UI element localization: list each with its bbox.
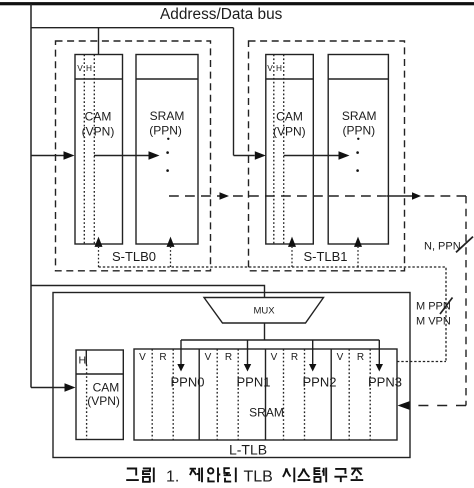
up arrow into SRAM1 bottom <box>357 247 359 267</box>
L-TLB outer box <box>53 293 410 458</box>
dotted M feed from L-TLB SRAM <box>397 361 446 363</box>
svg-text:PPN3: PPN3 <box>368 375 402 390</box>
hangul AN <box>208 468 220 483</box>
dotted M feed path <box>99 267 447 362</box>
svg-text:V: V <box>337 352 344 363</box>
arrow V2 to CAM1 <box>234 155 255 157</box>
svg-text:R: R <box>225 352 232 363</box>
arrow CAM0 to SRAM0 <box>94 155 149 157</box>
svg-text:(PPN): (PPN) <box>342 124 375 138</box>
S-TLB0 dashed block <box>56 41 211 271</box>
up arrow into CAM1 bottom <box>291 247 293 267</box>
up arrow into SRAM0 bottom <box>170 247 172 267</box>
L-TLB SRAM box <box>134 349 397 440</box>
svg-text:S-TLB0: S-TLB0 <box>112 249 156 264</box>
wire V2 drop toward S-TLB1 <box>233 28 235 156</box>
slash on N,PPN line <box>456 237 473 253</box>
arrow bus to L-TLB CAM <box>31 387 65 389</box>
svg-text:H: H <box>79 355 87 367</box>
hangul GEU <box>126 469 139 481</box>
drop arrow to PPN3 <box>378 340 380 364</box>
MUX trapezoid <box>204 298 324 324</box>
svg-text:SRAM: SRAM <box>342 109 377 123</box>
drop arrow to PPN2 <box>312 340 314 364</box>
SRAM box S-TLB1 <box>328 55 388 245</box>
Address/Data bus thick line <box>0 2 474 5</box>
CAM box S-TLB1 <box>266 55 314 245</box>
svg-text:TLB: TLB <box>244 469 273 486</box>
svg-text:H: H <box>86 63 92 73</box>
mid arrowhead 1 on dashed path <box>220 192 230 200</box>
distribution wire <box>181 339 379 341</box>
svg-text:R: R <box>159 352 166 363</box>
svg-text:H: H <box>276 63 282 73</box>
SRAM header separator <box>136 78 198 80</box>
hangul SEU <box>298 469 311 481</box>
svg-text:(VPN): (VPN) <box>273 124 306 138</box>
up arrow into CAM0 bottom <box>98 247 100 267</box>
wire H2 bus to MUX <box>31 286 265 298</box>
hangul RIM <box>143 468 154 483</box>
svg-text:CAM: CAM <box>85 109 112 123</box>
svg-text:PPN0: PPN0 <box>171 375 205 390</box>
svg-text:V: V <box>271 352 278 363</box>
L-TLB CAM box <box>76 350 123 440</box>
dotted V/R columns <box>152 349 370 440</box>
svg-text:(PPN): (PPN) <box>149 124 182 138</box>
mid arrowhead 2 on dashed path <box>412 192 421 200</box>
svg-text:(VPN): (VPN) <box>87 394 120 408</box>
dots SRAM1 <box>357 138 359 140</box>
svg-text:PPN1: PPN1 <box>237 375 271 390</box>
wire H1 horizontal feed under bus <box>31 27 234 29</box>
svg-text:CAM: CAM <box>276 109 303 123</box>
hangul JE <box>190 468 202 483</box>
dashed N,PPN output path <box>169 195 387 197</box>
wire drop into S-TLB0 VH <box>98 28 100 55</box>
wire V1 vertical from bus down left side <box>30 4 32 388</box>
svg-text:R: R <box>357 352 364 363</box>
CAM header separator <box>75 78 123 80</box>
svg-text:CAM: CAM <box>93 381 120 395</box>
way separators <box>199 349 331 440</box>
arrowhead into L-TLB right <box>398 401 411 410</box>
slash on M line <box>440 298 453 315</box>
H cell divider <box>85 350 87 365</box>
svg-text:MUX: MUX <box>253 306 275 317</box>
svg-text:V: V <box>139 352 146 363</box>
svg-text:V: V <box>77 63 83 73</box>
svg-text:V: V <box>205 352 212 363</box>
arrow CAM1 to SRAM1 <box>284 155 339 157</box>
drop arrow to PPN0 <box>180 340 182 364</box>
L-TLB CAM header separator <box>76 373 123 375</box>
dots SRAM0 <box>167 138 169 140</box>
hangul GU <box>334 469 347 482</box>
svg-text:M PPN: M PPN <box>416 301 451 313</box>
CAM1 header separator <box>266 78 314 80</box>
svg-text:L-TLB: L-TLB <box>229 442 267 458</box>
CAM box S-TLB0 <box>75 55 123 245</box>
CAM1 dotted columns <box>274 55 284 245</box>
svg-text:(VPN): (VPN) <box>82 124 115 138</box>
MUX output wire <box>264 323 266 340</box>
svg-text:N, PPN: N, PPN <box>424 241 461 253</box>
svg-text:Address/Data bus: Address/Data bus <box>160 6 283 23</box>
svg-text:V: V <box>267 63 273 73</box>
SRAM1 header separator <box>328 78 388 80</box>
drop arrow to PPN1 <box>247 340 249 364</box>
svg-text:S-TLB1: S-TLB1 <box>303 249 347 264</box>
svg-text:SRAM: SRAM <box>249 406 284 420</box>
hangul TEM <box>314 468 326 483</box>
hangul SI <box>283 468 294 483</box>
caption <box>126 468 363 486</box>
svg-text:SRAM: SRAM <box>150 109 185 123</box>
svg-text:M VPN: M VPN <box>416 316 451 328</box>
L-TLB CAM dotted column <box>86 365 88 440</box>
arrow bus to CAM0 <box>31 155 64 157</box>
CAM dotted columns <box>84 55 94 245</box>
S-TLB1 dashed block <box>249 41 405 271</box>
hangul DOEN <box>224 468 236 483</box>
svg-text:1.: 1. <box>166 469 179 486</box>
hangul JO <box>351 469 364 481</box>
SRAM box S-TLB0 <box>136 55 198 245</box>
svg-text:PPN2: PPN2 <box>303 375 337 390</box>
svg-text:R: R <box>291 352 298 363</box>
